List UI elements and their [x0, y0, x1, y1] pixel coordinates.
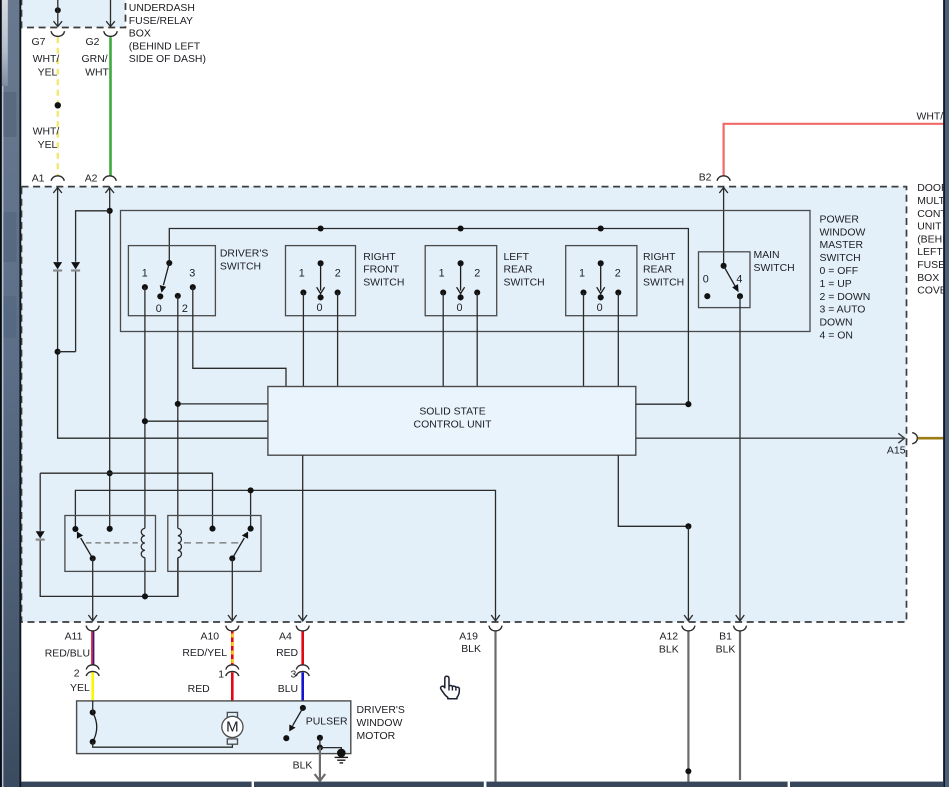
relay 2 switch lever: [232, 532, 248, 559]
svg-text:REAR: REAR: [643, 265, 672, 276]
svg-text:MOTOR: MOTOR: [357, 731, 396, 742]
svg-text:BLK: BLK: [293, 761, 313, 772]
relay 2 common dot: [229, 555, 235, 561]
svg-text:A4: A4: [279, 632, 292, 643]
svg-text:SIDE OF DASH): SIDE OF DASH): [129, 54, 206, 65]
wire main switch to B1: [736, 296, 745, 621]
left rear pin 1 dot: [440, 289, 446, 295]
driver's switch pin 3 dot: [190, 284, 196, 290]
label door multiplex control unit (clipped): [917, 183, 949, 296]
wire A10 RED segment to motor: [231, 672, 234, 712]
svg-text:RED/YEL: RED/YEL: [182, 648, 227, 659]
connector A2: [103, 176, 116, 181]
label GRN/WHT: [82, 54, 110, 78]
svg-text:1: 1: [579, 267, 585, 279]
svg-text:WINDOW: WINDOW: [357, 718, 403, 729]
inline connector 3 on A4: [296, 665, 309, 676]
svg-text:WINDOW: WINDOW: [820, 227, 866, 238]
wire left rear pins to control unit: [443, 293, 477, 387]
splice dot on A12 BLK wire: [685, 768, 691, 774]
bottom toolbar band: [21, 782, 943, 787]
door multiplex control unit box (big dashed box): [22, 187, 907, 622]
left rear common dot: [458, 260, 464, 266]
svg-text:2: 2: [74, 668, 80, 679]
svg-text:3: 3: [290, 670, 296, 681]
connector A12: [682, 626, 695, 631]
svg-text:2: 2: [335, 267, 341, 279]
wire A11 RED/BLU segment: [92, 632, 94, 666]
relay 2 pin dot (to A19 net): [248, 526, 254, 532]
wire A11 YEL segment to motor: [91, 672, 94, 701]
svg-text:DRIVER'S: DRIVER'S: [357, 705, 405, 716]
wire A12 down with arrow: [684, 526, 693, 621]
right rear pin 1 dot: [580, 289, 586, 295]
wire G7 feed inside underdash box: [54, 0, 63, 27]
wire driver pin3 to control unit top: [193, 287, 286, 386]
ground G401: [335, 749, 348, 763]
label B1 BLK: [716, 632, 736, 656]
svg-text:A12: A12: [660, 632, 679, 643]
svg-text:0 = OFF: 0 = OFF: [820, 266, 859, 277]
svg-text:2: 2: [474, 267, 480, 279]
wire pulser terminal link: [320, 738, 341, 751]
label left rear positions: [439, 267, 481, 314]
label A11 RED/BLU: [45, 632, 90, 660]
svg-text:1 = UP: 1 = UP: [820, 279, 852, 290]
main switch contact 4 dot: [737, 293, 743, 299]
svg-text:2: 2: [182, 303, 188, 315]
label right front switch: [363, 252, 404, 289]
svg-text:0: 0: [156, 303, 162, 315]
svg-text:3 = AUTO: 3 = AUTO: [820, 305, 866, 316]
svg-text:SWITCH: SWITCH: [643, 278, 684, 289]
wire right rear pins to control unit: [584, 293, 619, 387]
driver's switch box: [128, 246, 215, 316]
wire WHT/YEL G7 to A1: [57, 37, 59, 175]
svg-text:GRN/: GRN/: [82, 54, 108, 65]
inline connector 1 on A10: [226, 665, 239, 676]
label solid state control unit: [414, 406, 493, 430]
svg-text:0: 0: [597, 302, 603, 314]
power window master switch assembly box: [121, 211, 811, 332]
svg-text:SWITCH: SWITCH: [754, 263, 795, 274]
svg-text:REAR: REAR: [504, 265, 533, 276]
wire driver pin1 to control unit and relay coil 1: [145, 287, 268, 596]
svg-text:SWITCH: SWITCH: [363, 278, 404, 289]
svg-text:A11: A11: [65, 632, 83, 643]
left rear pin 2 dot: [474, 289, 480, 295]
label left rear switch: [504, 252, 545, 289]
wire control unit to A4 with arrow: [298, 455, 307, 621]
right rear lever arrow: [597, 263, 605, 293]
junction A2 relay feed node: [107, 470, 113, 476]
driver's switch common dot: [166, 260, 172, 266]
svg-text:A10: A10: [201, 632, 220, 643]
connector G2: [104, 31, 118, 36]
svg-text:UNIT: UNIT: [917, 222, 942, 233]
junction A12 tap: [685, 401, 691, 407]
junction pin1 tap: [142, 418, 148, 424]
svg-text:G7: G7: [32, 37, 46, 48]
splice dot on WHT/YEL wire: [55, 102, 61, 108]
junction A2 branch node: [107, 208, 113, 214]
svg-text:4 = ON: 4 = ON: [820, 331, 853, 342]
svg-text:3: 3: [189, 267, 195, 279]
wire A15 YEL/GRN stub: [918, 437, 945, 440]
label main switch: [754, 250, 795, 274]
svg-text:0: 0: [316, 302, 322, 314]
svg-text:BLK: BLK: [659, 645, 679, 656]
svg-text:DRIVER'S: DRIVER'S: [220, 249, 268, 260]
svg-text:B1: B1: [719, 632, 732, 643]
diode D2: [71, 262, 80, 272]
svg-text:1: 1: [299, 267, 305, 279]
label underdash fuse/relay box: [129, 3, 206, 65]
wire A1 into box with up arrow: [53, 187, 268, 438]
right front switch box: [286, 246, 356, 316]
motor switch top dot: [90, 709, 96, 715]
motor M1 lower brush: [227, 739, 237, 744]
label A12 BLK: [659, 632, 679, 656]
label inline connector 1 RED: [188, 670, 225, 696]
label power window master switch legend: [820, 214, 871, 341]
driver's window motor box: [77, 701, 351, 754]
relay 1 pin dot (to A19 net): [72, 526, 78, 532]
connector B1: [733, 626, 746, 631]
svg-text:BLK: BLK: [716, 645, 736, 656]
relay 1 armature link (dashed): [86, 542, 138, 544]
relay 1 coil: [141, 528, 145, 557]
pulser ground node dot: [317, 745, 323, 751]
wire A19 BLK to bottom: [494, 632, 496, 783]
motor switch stub: [92, 701, 94, 712]
label WHT/YEL upper: [33, 54, 60, 78]
relay 1 box (window down relay): [65, 516, 156, 572]
wire relay 1 to A11 with arrow: [88, 558, 97, 621]
svg-text:WHT: WHT: [85, 68, 109, 79]
relay 2 armature link (dashed): [184, 542, 239, 544]
relay 1 switch lever: [77, 532, 93, 559]
wire A12 BLK to bottom: [687, 632, 689, 783]
motor M1 body: [222, 716, 243, 737]
wire motor switch to motor lower brush: [93, 742, 233, 747]
right front pin 2 dot: [335, 289, 341, 295]
wire G2 feed inside underdash box: [106, 0, 115, 27]
right front lever arrow: [317, 263, 325, 293]
svg-text:PULSER: PULSER: [306, 716, 348, 727]
junction pin2 tap: [175, 401, 181, 407]
junction left rear common: [458, 225, 464, 231]
svg-text:LEFT: LEFT: [917, 247, 943, 258]
svg-text:RED: RED: [276, 648, 298, 659]
wire relay 2 to A10 with arrow: [228, 558, 237, 621]
svg-text:1: 1: [218, 670, 224, 681]
left rear switch box: [425, 246, 497, 316]
mouse cursor (pointing hand): [441, 676, 460, 699]
svg-text:LEFT: LEFT: [504, 252, 530, 263]
label inline connector 3 BLU: [278, 670, 298, 696]
svg-text:BLU: BLU: [278, 684, 298, 695]
connector A10: [226, 626, 239, 631]
svg-text:SOLID STATE: SOLID STATE: [419, 406, 485, 417]
svg-text:RED: RED: [188, 684, 210, 695]
svg-text:MASTER: MASTER: [820, 240, 864, 251]
pulser switch lever: [289, 708, 303, 732]
label A10 RED/YEL: [182, 632, 227, 659]
underdash fuse/relay box: [22, 0, 126, 28]
driver's switch contact 0 dot: [157, 293, 163, 299]
main switch lever: [724, 266, 739, 292]
wire driver pin2 to control unit and relay coil 2: [178, 296, 268, 597]
main switch common dot: [721, 263, 727, 269]
label right front positions: [299, 267, 341, 314]
svg-text:A15: A15: [887, 446, 906, 457]
wire switch common distribution line: [169, 229, 688, 405]
diode D1 on A1 line: [53, 262, 62, 272]
label right rear switch: [643, 252, 684, 289]
svg-text:MAIN: MAIN: [754, 250, 780, 261]
svg-text:FUSE: FUSE: [917, 260, 945, 271]
label driver's window motor: [357, 705, 405, 742]
svg-text:WHT/: WHT/: [33, 127, 60, 138]
right front common dot: [318, 260, 324, 266]
junction right front common: [318, 225, 324, 231]
solid state control unit U1: [268, 387, 636, 456]
relay 1 pin dot (to A2): [107, 526, 113, 532]
svg-text:B2: B2: [699, 172, 712, 183]
right rear contact 0 dot: [598, 294, 604, 300]
wire B2 to main switch with up arrow: [719, 187, 728, 265]
svg-text:UNDERDASH: UNDERDASH: [129, 3, 195, 14]
right rear switch box: [566, 246, 637, 316]
wire A2 branch to diode D2: [58, 211, 110, 352]
junction A12 lower node: [685, 523, 691, 529]
right window edge strip: [943, 0, 949, 787]
svg-text:4: 4: [736, 274, 742, 286]
svg-text:SWITCH: SWITCH: [220, 262, 261, 273]
svg-text:BOX: BOX: [129, 29, 151, 40]
wire A4 BLU segment to pulser: [301, 672, 304, 708]
wire right front pins to control unit: [303, 293, 337, 387]
driver's switch lever: [160, 263, 170, 293]
wire relay supply net with diode D3: [40, 473, 212, 596]
diode D3: [36, 531, 45, 541]
driver's switch pin 2 dot: [175, 293, 181, 299]
svg-text:2 = DOWN: 2 = DOWN: [820, 292, 871, 303]
relay 2 box (window up relay): [168, 516, 261, 572]
connector A11: [86, 626, 99, 631]
svg-text:RED/BLU: RED/BLU: [45, 649, 90, 660]
connector A1: [51, 176, 64, 181]
svg-text:0: 0: [703, 274, 709, 286]
junction A1/diode node: [55, 349, 61, 355]
right front pin 1 dot: [300, 289, 306, 295]
svg-text:CONTROL UNIT: CONTROL UNIT: [414, 419, 493, 430]
svg-text:YEL: YEL: [70, 683, 90, 694]
relay 2 pin dot (to relay supply): [209, 526, 215, 532]
motor switch bottom dot: [90, 739, 96, 745]
driver's switch pin 1 dot: [142, 284, 148, 290]
motor M1 upper brush: [227, 712, 237, 717]
svg-text:RIGHT: RIGHT: [643, 252, 676, 263]
splice dot in underdash box: [55, 7, 61, 13]
wire B2 WHT/RED from door multiplex unit: [724, 124, 944, 176]
svg-text:SWITCH: SWITCH: [504, 278, 545, 289]
connector A19: [489, 626, 502, 631]
relay 2 coil: [178, 528, 182, 557]
wire GRN/WHT G2 to A2: [109, 37, 112, 175]
junction coil return node: [142, 593, 148, 599]
svg-text:POWER: POWER: [820, 214, 860, 225]
right rear common dot: [598, 260, 604, 266]
svg-text:FRONT: FRONT: [363, 265, 400, 276]
svg-text:1: 1: [142, 267, 148, 279]
motor switch arc contact: [93, 712, 97, 741]
pulser input dot: [300, 705, 306, 711]
pulser contact dot: [283, 735, 289, 741]
wire A15 output with arrow: [636, 433, 905, 443]
wire motor BLK ground lead with arrow: [315, 748, 326, 781]
connector A4: [296, 626, 309, 631]
label driver's switch positions: [142, 267, 195, 315]
wire A19 net: [75, 490, 499, 621]
label right rear positions: [579, 267, 621, 314]
label inline connector 2 YEL: [70, 668, 90, 694]
svg-text:A19: A19: [459, 632, 478, 643]
main switch contact 0 dot: [704, 293, 710, 299]
connector G7: [51, 31, 65, 36]
pulser output terminal dot: [317, 735, 323, 741]
right rear pin 2 dot: [615, 289, 621, 295]
svg-text:BOX: BOX: [917, 273, 939, 284]
svg-text:1: 1: [439, 267, 445, 279]
connector A15: [912, 433, 917, 444]
svg-text:A2: A2: [85, 174, 98, 185]
label driver's switch: [220, 249, 268, 273]
left window edge strip: [0, 0, 21, 787]
wire A4 RED segment: [301, 632, 304, 666]
main switch box: [699, 252, 751, 308]
svg-text:0: 0: [456, 302, 462, 314]
label main switch positions: [703, 274, 743, 286]
svg-text:G2: G2: [86, 37, 100, 48]
svg-text:YEL: YEL: [38, 140, 58, 151]
svg-text:2: 2: [615, 267, 621, 279]
relay 1 common dot: [90, 555, 96, 561]
wire A2 into box with up arrow: [105, 187, 114, 529]
inline connector 2 on A11: [86, 665, 99, 676]
wire control unit bottom to A12 line: [618, 455, 688, 526]
svg-text:DOWN: DOWN: [820, 318, 853, 329]
junction right rear common: [598, 225, 604, 231]
left rear lever arrow: [457, 263, 465, 293]
left rear contact 0 dot: [458, 294, 464, 300]
svg-text:A1: A1: [32, 174, 45, 185]
junction A19/relay2 node: [248, 487, 254, 493]
label WHT/YEL lower: [33, 127, 60, 151]
svg-text:FUSE/RELAY: FUSE/RELAY: [129, 16, 193, 27]
wire B1 BLK to bottom: [739, 632, 741, 781]
connector B2: [717, 176, 730, 181]
wire control unit right to A12 line: [636, 403, 689, 405]
wire A10 RED/YEL segment: [231, 632, 234, 666]
svg-text:SWITCH: SWITCH: [820, 253, 861, 264]
svg-text:RIGHT: RIGHT: [363, 252, 396, 263]
svg-text:M: M: [226, 718, 239, 735]
svg-text:YEL: YEL: [38, 68, 58, 79]
label A4 RED: [276, 632, 298, 659]
svg-text:WHT/: WHT/: [33, 54, 60, 65]
right front contact 0 dot: [318, 294, 324, 300]
svg-text:BLK: BLK: [461, 644, 481, 655]
svg-text:(BEHIND LEFT: (BEHIND LEFT: [129, 41, 201, 52]
label A19 BLK: [459, 632, 481, 656]
